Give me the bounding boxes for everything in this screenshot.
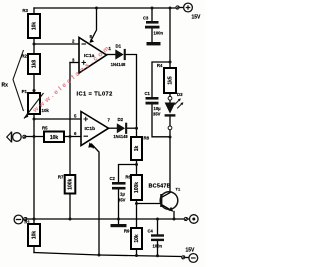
- svg-text:1N4148: 1N4148: [113, 134, 128, 139]
- svg-text:R6: R6: [125, 175, 131, 180]
- svg-text:C2: C2: [110, 176, 116, 181]
- svg-text:BC547B: BC547B: [149, 184, 171, 190]
- svg-text:1k8: 1k8: [32, 60, 38, 69]
- svg-text:D1: D1: [116, 44, 122, 49]
- svg-text:IC1b: IC1b: [85, 126, 96, 132]
- svg-text:T1: T1: [176, 187, 181, 192]
- svg-text:IC1 = TL072: IC1 = TL072: [77, 92, 113, 98]
- svg-text:10k: 10k: [32, 231, 38, 240]
- svg-text:100n: 100n: [154, 31, 164, 36]
- svg-text:Rx: Rx: [2, 83, 9, 89]
- svg-text:R8: R8: [144, 136, 150, 141]
- svg-text:R5: R5: [42, 126, 48, 131]
- svg-text:10k: 10k: [32, 22, 38, 31]
- svg-text:C3: C3: [143, 16, 149, 21]
- svg-text:R7: R7: [58, 175, 64, 180]
- svg-text:R1: R1: [24, 220, 30, 225]
- svg-text:1µ: 1µ: [120, 192, 125, 197]
- svg-text:1N4148: 1N4148: [111, 62, 126, 67]
- svg-text:10µ: 10µ: [154, 106, 162, 111]
- svg-text:R3: R3: [22, 8, 28, 13]
- svg-text:C4: C4: [148, 229, 154, 234]
- svg-text:C1: C1: [145, 91, 151, 96]
- svg-text:R2: R2: [21, 54, 27, 59]
- svg-text:100k: 100k: [68, 178, 74, 189]
- svg-text:10k: 10k: [134, 234, 140, 243]
- svg-text:35V: 35V: [118, 198, 126, 203]
- svg-text:100n: 100n: [153, 244, 163, 249]
- svg-text:10k: 10k: [42, 108, 50, 113]
- svg-text:P1: P1: [22, 89, 28, 94]
- svg-text:35V: 35V: [153, 112, 161, 117]
- svg-text:15V: 15V: [192, 15, 202, 21]
- svg-text:10k: 10k: [50, 135, 59, 141]
- svg-text:1k: 1k: [134, 146, 140, 152]
- svg-text:1k5: 1k5: [168, 76, 174, 85]
- svg-text:100k: 100k: [134, 182, 140, 193]
- svg-text:15V: 15V: [186, 248, 196, 254]
- svg-text:R4: R4: [157, 63, 163, 68]
- svg-text:R9: R9: [124, 229, 130, 234]
- svg-text:D3: D3: [177, 92, 183, 97]
- svg-text:D2: D2: [118, 117, 124, 122]
